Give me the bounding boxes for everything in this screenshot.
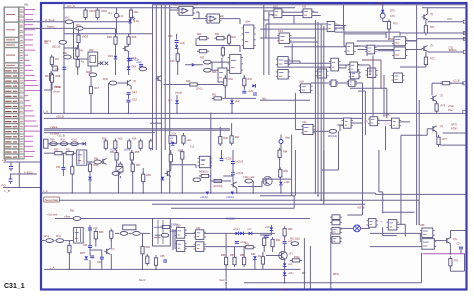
wire bbox=[362, 150, 364, 215]
wire bbox=[101, 250, 103, 257]
transformer T1 bars bbox=[78, 151, 80, 164]
IC U04 bbox=[242, 25, 256, 49]
wire bbox=[87, 161, 93, 163]
wire bbox=[231, 123, 233, 136]
wire bbox=[64, 240, 73, 242]
diode D15 bbox=[161, 177, 165, 180]
wire bbox=[279, 177, 281, 182]
wire bbox=[335, 27, 344, 29]
wire bbox=[110, 238, 112, 249]
resistor R65 bbox=[279, 167, 282, 179]
wire bbox=[110, 230, 112, 232]
resistor R85 bbox=[244, 246, 256, 249]
wire bbox=[219, 127, 221, 137]
svg-text:C21: C21 bbox=[132, 90, 137, 94]
wire bbox=[116, 150, 118, 153]
wire bbox=[417, 38, 466, 40]
capacitor C102 bbox=[231, 162, 235, 164]
right edge pin 2 bbox=[463, 110, 466, 113]
capacitor C67 bbox=[283, 242, 287, 244]
wire long vertical bbox=[169, 5, 171, 193]
diode D16 bbox=[279, 182, 283, 185]
svg-text:(10-1): (10-1) bbox=[196, 88, 203, 91]
svg-text:+5vdc: +5vdc bbox=[54, 85, 62, 89]
wire bbox=[436, 110, 438, 113]
flip-flop U14 bbox=[344, 43, 356, 54]
resistor R80 bbox=[94, 229, 97, 241]
wire bbox=[129, 18, 131, 20]
wire bbox=[185, 246, 196, 248]
jumper W2 bbox=[329, 129, 337, 133]
capacitor C23 bbox=[242, 91, 246, 93]
resistor R66 bbox=[160, 225, 172, 228]
svg-text:PG: PG bbox=[2, 184, 7, 188]
resistor R14 bbox=[128, 139, 131, 151]
flip-flop U15c bbox=[316, 69, 329, 78]
svg-text:R22: R22 bbox=[232, 36, 237, 39]
wire bbox=[270, 231, 272, 235]
wire bbox=[195, 38, 197, 45]
svg-text:R64: R64 bbox=[283, 151, 288, 154]
svg-text:R86: R86 bbox=[221, 254, 226, 257]
capacitor C62 bbox=[90, 256, 94, 258]
wire bbox=[243, 247, 245, 257]
wire bbox=[284, 60, 300, 62]
wire bbox=[345, 65, 347, 68]
capacitor C2a bbox=[129, 59, 133, 61]
IC U22 bbox=[342, 118, 354, 128]
wire bbox=[195, 165, 197, 168]
svg-text:(2m): (2m) bbox=[235, 100, 240, 103]
junction bbox=[320, 199, 322, 201]
resistor R70 bbox=[387, 19, 390, 31]
diode D66 bbox=[283, 272, 287, 275]
wire bbox=[450, 231, 452, 239]
svg-text:W-1: W-1 bbox=[65, 16, 70, 20]
diode D64 bbox=[270, 227, 274, 230]
wire bbox=[299, 61, 301, 63]
svg-text:Tx2: Tx2 bbox=[190, 146, 195, 149]
capacitor C51 bbox=[61, 168, 65, 170]
wire bbox=[362, 83, 364, 150]
svg-text:U21: U21 bbox=[302, 121, 307, 124]
wire bbox=[266, 23, 325, 25]
junction bbox=[210, 192, 212, 194]
wire bbox=[282, 15, 294, 17]
capacitor C61 bbox=[88, 246, 92, 248]
wire bbox=[239, 19, 241, 24]
jumper W06 bbox=[73, 217, 81, 221]
svg-text:R01: R01 bbox=[90, 9, 96, 13]
wire bbox=[185, 232, 196, 234]
svg-text:R03: R03 bbox=[83, 35, 89, 39]
svg-text:R700: R700 bbox=[451, 127, 457, 130]
relay K02 inner bbox=[90, 56, 96, 63]
svg-text:xTY: xTY bbox=[289, 252, 294, 255]
wire bbox=[64, 47, 79, 49]
wire bbox=[323, 150, 325, 204]
wire bbox=[263, 11, 265, 20]
diode D01 bbox=[114, 56, 118, 59]
wire bbox=[401, 134, 427, 136]
wire bbox=[378, 150, 380, 192]
IC U06 bbox=[218, 68, 227, 82]
resistor R74 bbox=[435, 102, 438, 114]
wire bbox=[211, 62, 213, 70]
flip-flop U32 bbox=[194, 230, 206, 240]
wire bbox=[224, 75, 226, 78]
wire bbox=[279, 158, 281, 170]
wire bbox=[155, 234, 161, 236]
wire bbox=[68, 241, 70, 246]
bus wire SecupGap bbox=[59, 199, 419, 201]
wire bbox=[90, 94, 92, 113]
wire bbox=[294, 15, 303, 17]
resistor R63 bbox=[212, 179, 224, 182]
junction bbox=[155, 269, 157, 271]
svg-text:R72: R72 bbox=[430, 58, 435, 61]
resistor R55 bbox=[130, 150, 133, 162]
wire bbox=[115, 44, 117, 55]
junction bbox=[63, 7, 65, 9]
svg-text:R50: R50 bbox=[54, 149, 59, 152]
wire bbox=[378, 50, 394, 52]
wire bbox=[428, 21, 464, 23]
transistor Q06 bbox=[165, 170, 171, 176]
IC U77 bbox=[386, 220, 399, 230]
flip-flop U30 bbox=[174, 227, 186, 238]
wire bbox=[357, 40, 417, 42]
wire bbox=[449, 266, 451, 271]
resistor R24 bbox=[221, 46, 224, 58]
wire bbox=[118, 171, 120, 193]
transformer T2 bbox=[153, 218, 171, 246]
flip-flop U13 bbox=[277, 33, 292, 43]
wire bbox=[89, 171, 91, 176]
resistor R84 bbox=[146, 254, 149, 266]
resistor R53 bbox=[88, 162, 91, 174]
wire bbox=[290, 41, 319, 43]
wire bbox=[155, 255, 157, 258]
resistor R04a bbox=[50, 55, 53, 67]
junction bbox=[330, 282, 332, 284]
svg-text:(7): (7) bbox=[133, 79, 136, 83]
relay K02 bbox=[88, 52, 98, 66]
capacitor C01 bbox=[63, 30, 65, 33]
resistor R88 bbox=[243, 255, 246, 267]
svg-text:+5vc airs: +5vc airs bbox=[47, 213, 58, 216]
wire bbox=[223, 97, 256, 99]
resistor R87 bbox=[233, 255, 236, 267]
capacitor C66 bbox=[265, 236, 269, 238]
LED D04 bbox=[128, 17, 135, 23]
svg-text:U18: U18 bbox=[299, 81, 304, 84]
wire bbox=[436, 102, 438, 104]
resistor R08 bbox=[50, 73, 53, 85]
wire bbox=[302, 272, 304, 274]
wire bbox=[372, 55, 374, 116]
svg-text:C65: C65 bbox=[160, 255, 165, 258]
capacitor C63 bbox=[100, 257, 104, 259]
wire bbox=[364, 91, 366, 135]
wire bbox=[263, 246, 265, 253]
wire bbox=[335, 31, 400, 33]
IC U20 bbox=[347, 80, 357, 86]
transistor Q10 (big) bbox=[277, 251, 287, 259]
wire bbox=[427, 128, 431, 130]
transistor Q02 bbox=[123, 46, 129, 52]
wire bbox=[427, 8, 429, 14]
svg-text:U04: U04 bbox=[245, 20, 250, 24]
capacitor C21 bbox=[127, 93, 131, 95]
wire bbox=[418, 200, 420, 225]
junction bbox=[108, 113, 110, 115]
IC U37 bbox=[420, 239, 437, 250]
wire bbox=[231, 98, 233, 100]
diode D05 bbox=[83, 142, 86, 146]
wire bbox=[436, 132, 438, 137]
junction bbox=[315, 192, 317, 194]
wire bbox=[335, 25, 346, 27]
jumper R26 bbox=[204, 68, 212, 72]
junction bbox=[291, 192, 293, 194]
wire bbox=[419, 233, 421, 240]
bus wire bottom bbox=[44, 268, 301, 270]
svg-text:R06: R06 bbox=[132, 35, 137, 39]
wire bbox=[261, 181, 263, 187]
wire maroon route bbox=[362, 59, 381, 61]
IC U72 bbox=[365, 45, 377, 54]
svg-text:C51: C51 bbox=[56, 166, 61, 169]
svg-text:R65: R65 bbox=[284, 170, 289, 173]
svg-text:SecupGap: SecupGap bbox=[45, 198, 59, 202]
svg-text:R0x: R0x bbox=[45, 75, 50, 78]
wire bbox=[76, 45, 78, 49]
wire bbox=[232, 150, 234, 161]
wire bbox=[174, 231, 176, 248]
connector pin stubs bbox=[24, 10, 40, 157]
wire bbox=[383, 235, 397, 237]
svg-text:R20: R20 bbox=[197, 33, 202, 36]
wire long vertical bbox=[320, 24, 322, 200]
wire bbox=[460, 250, 462, 254]
svg-text:U32: U32 bbox=[196, 227, 201, 230]
transistor Q09 bbox=[104, 248, 110, 254]
svg-text:(2)1: (2)1 bbox=[44, 41, 49, 44]
IC U33c bbox=[330, 220, 342, 225]
wire long vertical bbox=[160, 5, 162, 193]
junction bbox=[132, 192, 134, 194]
resistor R92 bbox=[263, 236, 266, 248]
jumper W07 bbox=[193, 178, 201, 182]
wire bbox=[383, 211, 415, 213]
wire bbox=[128, 102, 130, 113]
capacitor C201 bbox=[9, 162, 13, 171]
jumper W0a bbox=[59, 40, 67, 44]
wire bbox=[185, 64, 203, 66]
resistor R22 bbox=[227, 34, 230, 46]
junction bbox=[176, 113, 178, 115]
resistor R82 bbox=[110, 229, 113, 241]
wire bbox=[404, 224, 406, 236]
svg-text:(7): (7) bbox=[112, 248, 115, 251]
wire bbox=[358, 64, 371, 66]
IC U05 bbox=[228, 54, 243, 73]
svg-text:C|C: C|C bbox=[55, 68, 59, 71]
wire long vertical bbox=[416, 100, 418, 225]
flip-flop U17 bbox=[348, 62, 360, 72]
wire bbox=[284, 46, 346, 48]
svg-text:C61: C61 bbox=[83, 244, 88, 247]
svg-text:R61: R61 bbox=[178, 150, 183, 153]
resistor R32 bbox=[224, 76, 227, 88]
wire bbox=[181, 159, 183, 193]
wire bbox=[451, 230, 466, 232]
junction bbox=[78, 33, 80, 35]
svg-text:+5vd: +5vd bbox=[285, 137, 291, 140]
svg-text:R41: R41 bbox=[235, 136, 240, 139]
wire bbox=[98, 62, 101, 64]
svg-text:R32: R32 bbox=[229, 78, 234, 81]
capacitor C103 bbox=[231, 173, 235, 175]
svg-text:(2-): (2-) bbox=[108, 11, 112, 15]
svg-text:R0x: R0x bbox=[134, 11, 139, 14]
op-amp triangle in U03 bbox=[210, 16, 216, 22]
wire bbox=[421, 253, 423, 283]
wire bbox=[366, 50, 368, 57]
wire long bottom bbox=[244, 282, 422, 284]
wire bbox=[176, 34, 178, 40]
svg-text:R26: R26 bbox=[212, 71, 217, 74]
zener D10 bbox=[253, 93, 257, 95]
wire +12 bbox=[4, 161, 41, 163]
wire bbox=[115, 60, 117, 76]
flip-flop U31 bbox=[174, 241, 186, 252]
wire bbox=[95, 239, 97, 247]
junction bbox=[115, 33, 117, 35]
svg-text:R08: R08 bbox=[56, 74, 61, 78]
wire bbox=[406, 40, 417, 42]
IC U78 bbox=[123, 225, 136, 230]
svg-text:H_Sync: H_Sync bbox=[45, 18, 55, 22]
wire bbox=[294, 150, 296, 196]
wire bbox=[221, 150, 223, 158]
transistor Q08 (with circle) bbox=[262, 176, 272, 185]
IC U74 bbox=[368, 117, 380, 126]
transistor Q03 bbox=[125, 80, 131, 86]
resistor R73 bbox=[440, 82, 452, 85]
svg-text:(2-1): (2-1) bbox=[118, 15, 123, 18]
wire bbox=[375, 193, 465, 195]
wire bbox=[68, 253, 70, 270]
wire bbox=[131, 150, 133, 153]
wire bbox=[78, 28, 80, 34]
svg-text:+C2x: +C2x bbox=[136, 61, 142, 64]
wire +5vw bbox=[55, 218, 310, 220]
IC U35 bbox=[330, 237, 342, 244]
right edge pin Vo1 bbox=[463, 32, 466, 35]
connector J1 bbox=[4, 7, 24, 159]
transistor Q07 bbox=[231, 182, 237, 188]
junction bbox=[450, 253, 452, 255]
wire bbox=[440, 144, 465, 146]
svg-text:C60: C60 bbox=[170, 60, 175, 63]
wire bbox=[400, 66, 426, 68]
svg-text:MP7: MP7 bbox=[80, 252, 86, 255]
wire bbox=[385, 32, 387, 38]
wire bbox=[115, 28, 117, 36]
wire bbox=[339, 67, 347, 69]
wire bbox=[284, 244, 286, 251]
wire bbox=[351, 122, 362, 124]
wire bbox=[450, 82, 464, 84]
resistor R86 bbox=[225, 255, 228, 267]
wire long vertical bbox=[268, 12, 270, 75]
resistor R16 bbox=[149, 139, 152, 151]
diode D63 bbox=[253, 256, 257, 259]
IC U76 bbox=[366, 219, 378, 228]
capacitor C65 bbox=[163, 260, 167, 262]
resistor R54 bbox=[115, 150, 118, 162]
svg-text:C22: C22 bbox=[132, 98, 137, 102]
wire bbox=[399, 121, 410, 123]
wire bbox=[132, 171, 134, 193]
wire bbox=[343, 5, 345, 30]
wire bbox=[150, 122, 161, 124]
wire bbox=[399, 32, 401, 36]
resistor R17 bbox=[89, 84, 92, 96]
resistor R27 bbox=[176, 52, 179, 64]
svg-text:R50(10): R50(10) bbox=[199, 171, 208, 174]
flip-flop U10 bbox=[272, 9, 284, 18]
resistor R40 bbox=[219, 134, 222, 146]
polarized cap C03 bbox=[114, 13, 118, 17]
wire bbox=[128, 95, 130, 100]
IC U03 bbox=[205, 14, 222, 23]
bus wire +5Vana bbox=[44, 129, 230, 131]
svg-text:R70: R70 bbox=[393, 23, 398, 26]
wire bbox=[142, 254, 144, 269]
capacitor C71 bbox=[459, 247, 463, 249]
svg-text:R55: R55 bbox=[135, 151, 140, 154]
junction bbox=[382, 4, 384, 6]
wire bbox=[234, 247, 236, 258]
jumper W02 bbox=[76, 27, 84, 31]
transistor Q04 bbox=[156, 76, 162, 82]
resistor R03c bbox=[76, 57, 79, 69]
wire bbox=[18, 162, 20, 188]
wire bbox=[280, 185, 282, 193]
wire bbox=[74, 58, 89, 60]
wire long vertical bbox=[330, 233, 332, 288]
flip-flop U11 bbox=[301, 9, 314, 18]
wire bbox=[340, 227, 354, 229]
wire bbox=[84, 27, 115, 29]
svg-text:Vdec: Vdec bbox=[448, 109, 454, 112]
wire top right rail bbox=[422, 7, 466, 9]
flip-flop U17b bbox=[349, 71, 362, 79]
resistor R04 bbox=[50, 71, 53, 83]
wire bbox=[71, 176, 73, 193]
wire bbox=[425, 20, 427, 26]
wire bbox=[269, 14, 274, 16]
wire bbox=[130, 8, 132, 10]
svg-text:(2-1)x: (2-1)x bbox=[133, 20, 140, 23]
resistor R13 bbox=[114, 139, 117, 151]
svg-text:R33: R33 bbox=[248, 78, 253, 81]
junction bbox=[69, 269, 71, 271]
svg-text:C31_1: C31_1 bbox=[4, 283, 25, 290]
